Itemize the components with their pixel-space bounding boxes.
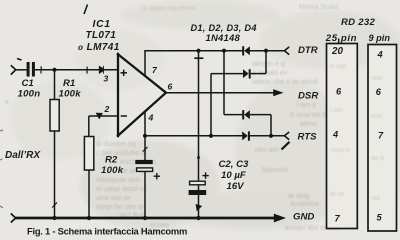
- tick on wire: [40, 66, 42, 73]
- stray ink mark: [282, 142, 290, 150]
- wire: D3 branch vertical: [223, 51, 225, 115]
- svg-text:6: 6: [376, 87, 382, 97]
- svg-text:lateon che o ov elnob: lateon che o ov elnob: [252, 79, 319, 86]
- svg-text:e: e: [5, 99, 9, 106]
- svg-text:sia: sia: [371, 195, 380, 202]
- svg-text:st ziqen loq eteno: st ziqen loq eteno: [142, 5, 195, 12]
- GND left connector: [11, 214, 16, 223]
- svg-text:Monta Scant: Monta Scant: [299, 4, 338, 11]
- tick on wire: [86, 67, 88, 74]
- svg-text:o LM741: o LM741: [78, 42, 120, 53]
- node: DTR junction D2 branch: [264, 49, 268, 53]
- svg-text:l om: l om: [330, 107, 343, 114]
- DSR arrowhead: [273, 89, 283, 96]
- capacitor C3: [190, 181, 206, 185]
- svg-text:RD 232: RD 232: [341, 17, 375, 28]
- svg-text:7: 7: [378, 131, 384, 141]
- wire R1 to ground rail: [54, 131, 56, 218]
- svg-text:uew wol se: uew wol se: [96, 195, 131, 202]
- stray tick above DB25 box: [338, 39, 340, 44]
- direction arrow on wire: [99, 66, 105, 74]
- polarity tick on C3 wire: [194, 57, 203, 59]
- svg-text:au b: au b: [371, 155, 384, 162]
- stray dash above input: [17, 59, 22, 61]
- svg-text:10 µF: 10 µF: [221, 170, 247, 181]
- direction arrow on pin2 wire: [96, 113, 102, 118]
- ground rail: [16, 217, 275, 220]
- svg-text:ar oldg: ar oldg: [288, 193, 310, 200]
- DTR connector: [284, 47, 289, 55]
- svg-text:etel: etel: [371, 113, 382, 120]
- svg-text:neo am: neo am: [255, 147, 279, 154]
- wire: D3 line: [224, 114, 242, 116]
- op-amp IC1 triangle: [117, 53, 166, 137]
- pin 7 wire up to DTR rail: [144, 51, 146, 77]
- svg-text:100n: 100n: [18, 88, 41, 99]
- tick on pin4 wire: [143, 147, 148, 152]
- DTR rail wire: [144, 50, 243, 52]
- DB9 connector column box: [368, 45, 397, 232]
- diode D4: [242, 131, 250, 140]
- svg-text:20: 20: [331, 46, 343, 57]
- svg-text:100k: 100k: [59, 88, 82, 99]
- left margin specks: [0, 130, 3, 208]
- diode D2: [243, 69, 251, 78]
- resistor R2: [84, 137, 93, 171]
- svg-text:aleqon e q: aleqon e q: [252, 61, 285, 68]
- capacitor C2: [135, 160, 152, 164]
- svg-text:c ovu asslube ol: c ovu asslube ol: [96, 150, 147, 157]
- svg-text:Fig. 1 - Schema interfaccia Ha: Fig. 1 - Schema interfaccia Hamcomm: [27, 226, 187, 237]
- svg-text:6: 6: [336, 87, 342, 97]
- svg-text:4: 4: [148, 113, 154, 123]
- wire: D2 line: [211, 73, 243, 75]
- svg-text:GND: GND: [293, 211, 314, 222]
- RTS connector: [284, 132, 289, 140]
- resistor R1: [54, 70, 56, 100]
- svg-text:one: one: [371, 75, 383, 82]
- svg-text:D1, D2, D3, D4: D1, D2, D3, D4: [191, 23, 257, 33]
- wire: output pin 6 / DSR: [166, 92, 274, 94]
- svg-text:Dall’RX: Dall’RX: [5, 150, 41, 161]
- node: rail junction C3: [196, 49, 200, 53]
- svg-text:3: 3: [104, 74, 109, 84]
- svg-text:16V: 16V: [227, 181, 246, 192]
- svg-text:IC1: IC1: [93, 19, 111, 30]
- node: RTS junctions: [143, 134, 147, 138]
- node: rail junction D3 branch: [222, 49, 226, 53]
- svg-text:Wlieqouw oeb: Wlieqouw oeb: [96, 177, 140, 184]
- svg-text:C2, C3: C2, C3: [219, 159, 250, 170]
- bleed-through text noise: [5, 4, 340, 232]
- wire down to R2: [88, 116, 90, 137]
- diode D3: [242, 110, 250, 119]
- svg-text:RTS: RTS: [298, 132, 318, 143]
- svg-text:ib dsloibe oq: ib dsloibe oq: [96, 141, 135, 148]
- wire: D2 left end down to RTS: [210, 74, 212, 136]
- svg-text:4: 4: [377, 50, 383, 60]
- wire: pin 2: [89, 115, 118, 117]
- svg-text:100k: 100k: [101, 165, 124, 176]
- wire: pin 4 down to C2: [144, 112, 146, 161]
- svg-text:5: 5: [377, 213, 383, 223]
- ground rail junctions: [52, 216, 56, 220]
- tick on wire: [52, 203, 57, 208]
- svg-text:l om a: l om a: [297, 102, 316, 109]
- stray ink mark top-left: [84, 5, 88, 15]
- svg-text:TL071: TL071: [86, 30, 117, 41]
- capacitor C1: [27, 62, 35, 77]
- svg-text:DSR: DSR: [298, 90, 318, 101]
- wire: RTS line: [145, 135, 242, 137]
- GND arrowhead: [274, 214, 286, 223]
- direction arrow on C3 ground wire: [196, 205, 202, 211]
- plus sign (pin 3): [121, 70, 128, 76]
- wire: C3 vertical from rail: [198, 51, 200, 182]
- svg-text:DTR: DTR: [298, 45, 318, 56]
- svg-text:7: 7: [335, 214, 341, 224]
- svg-text:25 pin: 25 pin: [325, 33, 357, 44]
- input connector (Dall'RX): [11, 65, 16, 74]
- svg-text:6: 6: [168, 82, 173, 92]
- svg-text:4: 4: [332, 130, 338, 140]
- wire R2 to ground rail: [88, 170, 90, 218]
- node A junction: [53, 68, 57, 72]
- svg-text:1N4148: 1N4148: [206, 33, 241, 44]
- svg-text:9 pin: 9 pin: [369, 33, 391, 43]
- svg-text:telme: telme: [300, 121, 317, 128]
- diode D1: [242, 46, 250, 55]
- faint bleed inside connector boxes: [330, 63, 384, 202]
- svg-text:msa e: msa e: [331, 147, 350, 154]
- svg-text:2: 2: [104, 104, 110, 114]
- svg-text:e ogs: e ogs: [330, 63, 347, 70]
- svg-text:Anatelsia: Anatelsia: [290, 201, 319, 208]
- svg-text:ib ve: ib ve: [330, 191, 345, 198]
- wire: D2 to DTR node: [265, 51, 267, 74]
- wire: input to pin 3: [16, 69, 27, 71]
- svg-text:R2: R2: [105, 155, 118, 166]
- svg-text:iseqe be ueo te: iseqe be ueo te: [96, 204, 144, 211]
- DB25 connector column box: [327, 44, 358, 229]
- svg-text:el ualqe botol oy: el ualqe botol oy: [96, 186, 147, 193]
- svg-text:blansoin: blansoin: [262, 167, 288, 174]
- minus sign (pin 2): [121, 115, 127, 117]
